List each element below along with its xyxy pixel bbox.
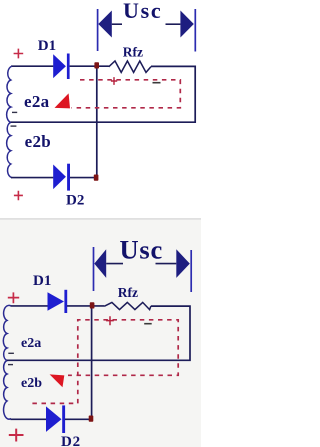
wire: transformer bottom terminal to D2 anode (lower) (11, 418, 47, 420)
Usc dimension: left end bar (97, 9, 99, 51)
plus sign at top of winding e2a (14, 49, 24, 59)
minus mark below center tap (lower) (8, 364, 13, 366)
wire: cathode junction vertical (D1 to D2) (96, 66, 98, 177)
Usc dimension: left arrowhead (98, 11, 112, 38)
svg-text:Rfz: Rfz (123, 45, 143, 60)
minus mark on dashed path (153, 82, 161, 84)
wire: transformer bottom terminal to D2 anode (11, 177, 53, 179)
wire: D2 cathode to junction (lower) (65, 418, 92, 420)
diode D2 cathode bar (lower) (62, 405, 65, 433)
wire: resistor to right corner and return to center tap (lower) (7, 306, 190, 360)
plus sign at bottom of winding e2b (14, 191, 23, 200)
diode D2 triangle (lower) (46, 406, 62, 432)
red current arrowhead (lower diagram) (50, 374, 65, 387)
minus mark above center tap (12, 111, 17, 113)
diode D1 cathode bar (lower) (64, 290, 67, 313)
red current arrowhead (upper diagram) (55, 93, 71, 108)
minus mark below center tap (11, 125, 17, 127)
Usc dimension: right arrowhead (180, 11, 193, 38)
junction dot at D1 cathode node (lower) (90, 302, 95, 308)
svg-text:e2a: e2a (24, 92, 50, 111)
plus sign at bottom of winding e2b (lower) (9, 429, 24, 442)
transformer secondary coil (lower) (3, 305, 11, 419)
svg-text:Usc: Usc (120, 235, 164, 265)
diode D2 cathode bar (67, 164, 70, 191)
Usc dimension: left line segment (lower) (106, 263, 123, 265)
svg-text:Usc: Usc (123, 0, 162, 23)
wire: transformer top terminal to D1 anode (11, 65, 53, 67)
svg-text:D1: D1 (38, 38, 56, 54)
diode D1 cathode bar (67, 54, 70, 80)
junction dot at D2 cathode node (lower) (89, 416, 94, 422)
wire: cathode junction vertical (lower) (91, 306, 93, 419)
wire: D2 cathode to junction (70, 177, 97, 179)
svg-text:e2a: e2a (21, 336, 41, 351)
plus sign at top of winding e2a (lower) (8, 292, 19, 303)
junction dot at D2 cathode node (94, 175, 99, 181)
svg-text:e2b: e2b (21, 376, 42, 391)
Usc dimension: right arrowhead (lower) (176, 249, 190, 278)
transformer secondary coil (e2a + e2b) (7, 66, 12, 177)
Usc dimension: right line segment (166, 23, 181, 25)
diode D1 triangle (lower) (48, 292, 65, 310)
svg-text:D2: D2 (66, 193, 84, 209)
wire: resistor to right corner and return to center tap (11, 66, 195, 122)
dashed current path stub to e2b (lower) (32, 402, 77, 404)
dashed current path (lower diagram) (68, 320, 178, 404)
svg-text:e2b: e2b (25, 132, 51, 151)
minus mark on dashed path (lower) (144, 323, 152, 325)
wire: D1 cathode to resistor (lower) (67, 305, 104, 307)
Usc dimension: right end bar (194, 9, 196, 52)
diode D1 triangle (53, 54, 66, 78)
Usc dimension: left end bar (lower) (93, 247, 95, 291)
wire: D1 cathode to resistor (70, 65, 109, 67)
plus mark on dashed path (lower) (106, 316, 114, 325)
wire: transformer top terminal to D1 anode (lower) (11, 305, 49, 307)
resistor Rfz zigzag (lower) (104, 302, 151, 309)
Usc dimension: right line segment (lower) (156, 263, 177, 265)
minus mark above center tap (lower) (8, 352, 14, 354)
Usc dimension: left line segment (112, 23, 122, 25)
plus mark on dashed path (111, 77, 117, 85)
diode D2 triangle (53, 165, 66, 190)
svg-text:Rfz: Rfz (118, 285, 138, 300)
resistor Rfz zigzag (109, 61, 151, 72)
dashed current path (upper diagram) (72, 80, 181, 108)
Usc dimension: left arrowhead (lower) (94, 249, 106, 278)
svg-text:D1: D1 (33, 273, 51, 289)
junction dot at D1 cathode node (94, 62, 99, 68)
lower panel background (0, 220, 201, 447)
svg-text:D2: D2 (61, 434, 81, 447)
divider line between the two diagrams (0, 218, 201, 219)
Usc dimension: right end bar (lower) (190, 250, 192, 292)
